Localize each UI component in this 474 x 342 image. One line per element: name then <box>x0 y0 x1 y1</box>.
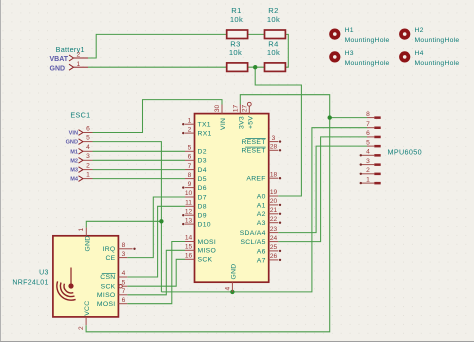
svg-text:NRF24L01: NRF24L01 <box>12 279 48 286</box>
svg-text:14: 14 <box>185 235 193 242</box>
svg-text:4: 4 <box>86 144 90 151</box>
svg-text:GND: GND <box>50 65 66 72</box>
svg-text:11: 11 <box>185 200 192 207</box>
svg-text:IRQ: IRQ <box>103 246 116 253</box>
svg-text:D5: D5 <box>198 176 207 183</box>
svg-text:8: 8 <box>366 111 370 118</box>
svg-text:6: 6 <box>122 297 126 304</box>
svg-text:M3: M3 <box>70 168 78 174</box>
svg-text:8: 8 <box>188 172 192 179</box>
svg-text:30: 30 <box>214 105 221 113</box>
svg-text:10k: 10k <box>230 15 243 24</box>
svg-text:D2: D2 <box>198 149 207 156</box>
svg-text:19: 19 <box>270 189 278 196</box>
svg-text:VIN: VIN <box>69 131 78 137</box>
svg-text:CSN: CSN <box>100 274 115 281</box>
svg-text:5: 5 <box>366 139 370 146</box>
svg-text:2: 2 <box>86 163 90 170</box>
svg-text:D3: D3 <box>198 158 207 165</box>
svg-text:MISO: MISO <box>198 248 217 255</box>
svg-text:U3: U3 <box>39 269 49 276</box>
svg-text:1: 1 <box>78 228 85 232</box>
svg-text:1: 1 <box>366 176 370 183</box>
svg-text:4: 4 <box>366 149 370 156</box>
svg-text:2: 2 <box>78 326 85 330</box>
svg-text:18: 18 <box>270 171 278 178</box>
svg-text:4: 4 <box>122 270 126 277</box>
svg-text:SCK: SCK <box>101 283 116 290</box>
svg-text:D4: D4 <box>198 167 207 174</box>
svg-text:MountingHole: MountingHole <box>345 37 390 44</box>
svg-text:25: 25 <box>270 244 278 251</box>
svg-text:A2: A2 <box>257 211 266 218</box>
svg-text:M2: M2 <box>70 158 78 164</box>
svg-text:A3: A3 <box>257 220 266 227</box>
svg-text:H3: H3 <box>345 50 354 57</box>
svg-text:13: 13 <box>185 217 193 224</box>
svg-text:10k: 10k <box>267 15 280 24</box>
svg-text:17: 17 <box>232 105 239 113</box>
svg-text:3: 3 <box>366 158 370 165</box>
svg-text:MountingHole: MountingHole <box>345 60 390 67</box>
svg-text:3: 3 <box>86 153 90 160</box>
svg-text:27: 27 <box>241 105 248 113</box>
svg-text:5: 5 <box>122 279 126 286</box>
svg-text:2: 2 <box>76 52 80 59</box>
svg-text:6: 6 <box>188 154 192 161</box>
svg-text:D7: D7 <box>198 194 207 201</box>
svg-text:MountingHole: MountingHole <box>415 37 460 44</box>
svg-text:TX1: TX1 <box>198 122 211 129</box>
svg-text:VBAT: VBAT <box>50 56 69 63</box>
svg-text:23: 23 <box>270 226 278 233</box>
svg-text:D8: D8 <box>198 204 207 211</box>
svg-text:GND: GND <box>66 140 78 146</box>
svg-text:VIN: VIN <box>220 118 227 130</box>
svg-text:12: 12 <box>185 208 193 215</box>
svg-text:1: 1 <box>86 172 90 179</box>
svg-text:D9: D9 <box>198 213 207 220</box>
svg-text:6: 6 <box>366 130 370 137</box>
svg-text:D6: D6 <box>198 185 207 192</box>
svg-text:3: 3 <box>272 135 276 142</box>
svg-text:+5V: +5V <box>247 116 254 129</box>
svg-text:3V3: 3V3 <box>238 116 245 129</box>
svg-text:A7: A7 <box>257 257 266 264</box>
svg-text:15: 15 <box>185 244 193 251</box>
svg-text:Battery1: Battery1 <box>56 45 85 54</box>
svg-text:22: 22 <box>270 216 278 223</box>
svg-text:2: 2 <box>366 167 370 174</box>
svg-text:10k: 10k <box>229 48 242 57</box>
svg-text:H4: H4 <box>415 50 424 57</box>
svg-text:MPU6050: MPU6050 <box>388 148 422 157</box>
svg-text:7: 7 <box>188 163 192 170</box>
svg-text:10k: 10k <box>267 48 280 57</box>
svg-text:1: 1 <box>188 117 192 124</box>
svg-text:ESC1: ESC1 <box>70 110 90 119</box>
svg-text:MOSI: MOSI <box>97 301 116 308</box>
svg-text:SCL/A5: SCL/A5 <box>240 239 265 246</box>
svg-text:21: 21 <box>270 207 278 214</box>
svg-text:8: 8 <box>122 242 126 249</box>
svg-text:MISO: MISO <box>97 292 116 299</box>
svg-text:A6: A6 <box>257 248 266 255</box>
svg-text:RESET: RESET <box>242 139 266 146</box>
svg-text:GND: GND <box>230 263 237 279</box>
svg-text:4: 4 <box>224 287 231 291</box>
svg-text:1: 1 <box>76 61 80 68</box>
svg-text:3: 3 <box>122 251 126 258</box>
svg-text:MOSI: MOSI <box>198 239 217 246</box>
svg-text:A1: A1 <box>257 202 266 209</box>
svg-text:20: 20 <box>270 198 278 205</box>
svg-text:5: 5 <box>86 135 90 142</box>
svg-text:10: 10 <box>185 190 193 197</box>
svg-text:H1: H1 <box>345 27 354 34</box>
svg-text:AREF: AREF <box>246 176 265 183</box>
svg-text:GND: GND <box>84 235 91 251</box>
svg-text:M1: M1 <box>70 149 78 155</box>
svg-text:H2: H2 <box>415 27 424 34</box>
svg-text:16: 16 <box>185 253 193 260</box>
svg-text:2: 2 <box>188 126 192 133</box>
svg-text:7: 7 <box>366 121 370 128</box>
svg-text:CE: CE <box>105 255 115 262</box>
svg-text:5: 5 <box>188 145 192 152</box>
svg-text:6: 6 <box>86 125 90 132</box>
svg-text:28: 28 <box>270 144 278 151</box>
svg-text:SCK: SCK <box>198 257 213 264</box>
svg-text:SDA/A4: SDA/A4 <box>240 230 266 237</box>
svg-text:M4: M4 <box>70 177 79 183</box>
svg-text:MountingHole: MountingHole <box>415 60 460 67</box>
svg-text:RX1: RX1 <box>198 131 212 138</box>
svg-text:D10: D10 <box>198 222 211 229</box>
svg-text:9: 9 <box>188 181 192 188</box>
svg-text:A0: A0 <box>257 193 266 200</box>
svg-text:24: 24 <box>270 235 278 242</box>
svg-text:RESET: RESET <box>242 148 266 155</box>
svg-text:26: 26 <box>270 253 278 260</box>
svg-text:VCC: VCC <box>84 301 91 316</box>
svg-text:7: 7 <box>122 288 126 295</box>
